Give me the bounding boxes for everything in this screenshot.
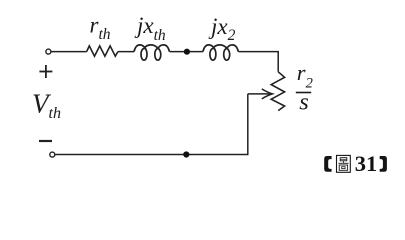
svg-text:s: s: [299, 89, 309, 116]
svg-text:31: 31: [355, 151, 378, 175]
svg-text:rth: rth: [90, 12, 111, 43]
svg-text:Vth: Vth: [32, 89, 61, 122]
svg-text:jxth: jxth: [134, 13, 166, 44]
svg-text:r2: r2: [297, 60, 313, 91]
svg-text:jx2: jx2: [208, 14, 236, 44]
